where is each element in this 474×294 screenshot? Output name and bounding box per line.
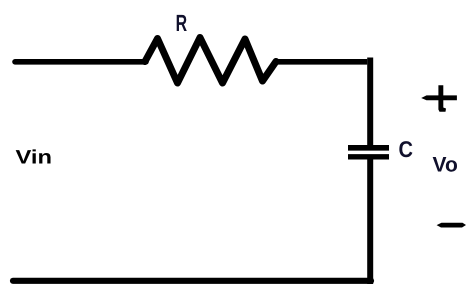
wire vertical upper (to capacitor) bbox=[367, 58, 373, 147]
wire bottom return bbox=[13, 278, 371, 284]
wire top-left input bbox=[15, 59, 146, 65]
wire top-right bbox=[274, 59, 367, 65]
svg-text:C: C bbox=[399, 136, 414, 162]
minus sign (Vo polarity -) bbox=[437, 223, 466, 228]
resistor R bbox=[145, 38, 276, 84]
capacitor C bottom plate bbox=[348, 154, 389, 159]
svg-text:Vo: Vo bbox=[433, 154, 458, 177]
svg-text:R: R bbox=[176, 10, 188, 36]
svg-text:Vin: Vin bbox=[16, 147, 53, 169]
plus sign (Vo polarity +) bbox=[421, 85, 457, 112]
wire vertical lower (capacitor to bottom) bbox=[367, 160, 373, 285]
capacitor C top plate bbox=[348, 145, 389, 151]
